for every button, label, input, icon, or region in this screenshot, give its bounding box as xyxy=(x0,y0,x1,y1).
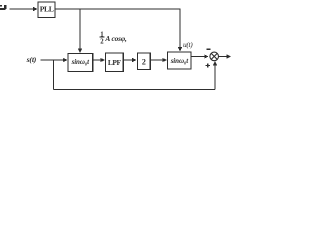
svg-text:sinω₀t: sinω₀t xyxy=(71,58,91,66)
svg-text:s(t): s(t) xyxy=(26,55,37,64)
svg-text:2: 2 xyxy=(142,57,146,66)
svg-text:LPF: LPF xyxy=(108,58,122,67)
LPF block xyxy=(105,53,123,71)
wire PLL to top-right corner xyxy=(55,8,181,10)
wire sin2 to summer xyxy=(191,54,209,58)
wire input to PLL xyxy=(10,7,38,11)
input label s (clipped at left edge) xyxy=(0,5,6,10)
feedback wire bottom to summer plus input xyxy=(53,61,217,89)
minus sign xyxy=(207,48,211,49)
wire corner down into sin block 2 xyxy=(178,9,182,52)
wire LPF to gain 2 xyxy=(123,58,136,62)
multiplier block sin1 xyxy=(68,54,93,72)
wire branch down into multiplier 1 xyxy=(78,9,82,53)
svg-text:2: 2 xyxy=(100,39,104,46)
svg-text:A cosφ,: A cosφ, xyxy=(104,34,127,43)
sin block 2 xyxy=(168,52,191,69)
wire sin1 to LPF xyxy=(93,58,105,62)
svg-text:PLL: PLL xyxy=(40,4,54,13)
PLL block xyxy=(38,2,55,18)
gain block 2 xyxy=(138,53,151,70)
wire gain 2 to sin2 xyxy=(150,58,167,62)
svg-text:sinω₀t: sinω₀t xyxy=(170,57,190,65)
svg-text:u(t): u(t) xyxy=(183,40,193,49)
feedback tap wire down from input xyxy=(52,60,54,89)
wire summer output xyxy=(219,54,232,58)
wire s(t) to multiplier 1 xyxy=(41,58,68,62)
summer circle with X xyxy=(210,52,219,61)
label 1/2 A cos phi xyxy=(100,32,128,46)
plus sign xyxy=(206,63,210,67)
